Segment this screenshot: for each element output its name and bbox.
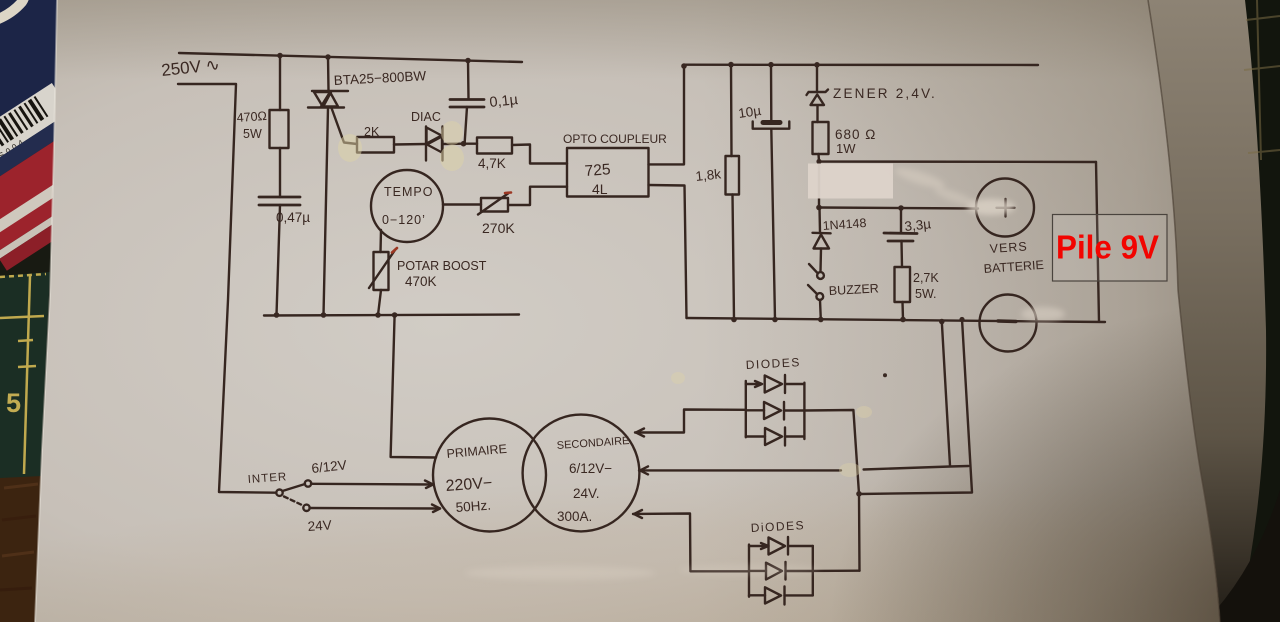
arrow into primaire bottom (432, 505, 440, 513)
wire 10u drop (770, 65, 773, 120)
svg-text:TEMPO: TEMPO (384, 185, 433, 199)
svg-text:680 Ω: 680 Ω (835, 127, 876, 142)
node rail triac (321, 312, 327, 318)
wire zener to 680R (816, 106, 818, 123)
ghost reflection marks bottom center (465, 564, 820, 580)
switch INTER pivot (276, 490, 282, 496)
mat sliver far right (1238, 0, 1280, 622)
svg-text:0,47µ: 0,47µ (276, 210, 310, 225)
capacitor C 0,1u (450, 100, 484, 108)
svg-text:0−120’: 0−120’ (382, 213, 426, 227)
green cutting mat left (0, 272, 50, 478)
wire 4,7k to opto pin1 (512, 145, 567, 164)
wire down through whiteout to plus node (818, 162, 820, 208)
diode bank2 D3 (749, 587, 813, 605)
wire secondaire mid output right part to A (864, 466, 969, 470)
wire 470R drop (279, 56, 281, 111)
node bus corner (681, 63, 687, 69)
switch dashed to contact bottom (284, 497, 303, 506)
svg-text:220V−: 220V− (445, 475, 493, 495)
node bus 1,8k (728, 62, 734, 68)
wire battery box vertical (1096, 162, 1099, 322)
diode bank2 D1 (749, 537, 813, 555)
node 680 corner (816, 159, 821, 164)
wire 10u down to rail (771, 129, 775, 320)
wire 680R to node and right to battery box (819, 154, 1097, 162)
potentiometer R 270k (478, 193, 511, 215)
wire 3,3u drop (900, 208, 902, 233)
wire 2k to diac (394, 143, 426, 146)
wood table bottom-left (0, 476, 42, 622)
diode bank 1 right bar (803, 383, 805, 439)
wire switch top contact to primaire (311, 483, 433, 486)
svg-text:270K: 270K (482, 220, 515, 236)
diode bank1 D2 (746, 402, 805, 420)
capacitor C 0,47u (259, 197, 300, 205)
svg-text:5W.: 5W. (915, 287, 937, 301)
wire opto out top to right bus (649, 65, 685, 165)
mat yellow grid (0, 274, 46, 474)
correction blob near rail gap (839, 463, 861, 477)
node plus line left (816, 205, 822, 211)
wire rail down B to diode output node (859, 319, 972, 494)
svg-text:OPTO COUPLEUR: OPTO COUPLEUR (563, 132, 667, 146)
wire opto out bottom down to right rail (649, 185, 687, 318)
wire 250V return lead (178, 84, 276, 493)
left objects under paper (0, 0, 133, 622)
svg-text:4L: 4L (592, 181, 608, 197)
resistor R 470ohm 5W (270, 110, 289, 148)
wire 0,1u to diac node (465, 107, 467, 144)
svg-text:1W: 1W (836, 141, 856, 156)
diac D1 (426, 127, 443, 161)
wire diode to buzzer (819, 249, 822, 272)
wire tempo to 270k (443, 203, 481, 205)
wire secondaire bottom output to diodes2 (633, 514, 749, 572)
whiteout big patch (808, 164, 893, 199)
node rail potar (375, 312, 381, 318)
node junction 0,1u top (465, 58, 471, 64)
resistor R 4,7k (477, 138, 512, 154)
svg-text:0,1µ: 0,1µ (489, 92, 520, 111)
wire triac cathode down to rail (324, 108, 329, 316)
wire plus node line (819, 208, 978, 209)
svg-text:2K: 2K (364, 125, 380, 139)
node diac / 0,1u / 4,7k junction (461, 141, 467, 147)
barcode bars (0, 97, 48, 161)
wire zener drop (816, 65, 818, 91)
mat grid faint lines top-right (1200, 0, 1280, 240)
transformer secondaire circle (523, 415, 640, 532)
svg-text:ZENER 2,4V.: ZENER 2,4V. (833, 86, 937, 101)
svg-text:10µ: 10µ (737, 103, 762, 121)
svg-text:5: 5 (6, 388, 21, 418)
node bus 10u (768, 62, 774, 68)
node rail 0,47u (274, 312, 280, 318)
svg-text:300A.: 300A. (557, 509, 592, 524)
wire secondaire top output to diodes1 (635, 410, 746, 433)
wire rail down to primaire top input (391, 315, 436, 458)
svg-text:POTAR BOOST: POTAR BOOST (397, 259, 487, 273)
diode bank 1 left bar (745, 381, 747, 437)
wire 2,7k to rail (901, 302, 904, 320)
navy sliver below sticker (0, 106, 87, 190)
wire 1,8k bottom to rail (733, 195, 735, 320)
svg-text:DiODES: DiODES (750, 518, 805, 535)
transformer primaire circle (433, 419, 546, 532)
terminal minus (980, 295, 1037, 352)
wire secondaire mid output left part (639, 469, 841, 471)
svg-text:BUZZER: BUZZER (828, 281, 879, 298)
diode bank1 D3 (746, 428, 805, 446)
node junction 470R top (277, 53, 283, 59)
svg-text:4,7K: 4,7K (478, 156, 506, 171)
diode D 1N4148 (813, 233, 831, 249)
wire diodes1 output down (804, 410, 859, 571)
wire rail down A to secondaire mid line (942, 322, 950, 466)
wire triac drop from bus (327, 57, 330, 90)
wire node to 4,7k (466, 142, 477, 144)
wire tempo to potar boost (379, 230, 382, 252)
diode bank2 D2 (749, 562, 813, 580)
resistor R 680ohm 1W (813, 122, 829, 154)
svg-text:DIAC: DIAC (411, 110, 441, 124)
svg-text:VERS: VERS (989, 239, 1028, 256)
wire 470R to C1 (279, 148, 281, 197)
arrow secondaire top (636, 429, 644, 437)
red band with white stripes (0, 119, 121, 253)
svg-text:24V.: 24V. (573, 486, 600, 501)
node rail buzzer (818, 317, 824, 323)
optocoupler U 725 4L (567, 148, 649, 197)
node plus line 3,3u (898, 205, 904, 211)
wire top right bus (684, 63, 1038, 66)
resistor R 1,8k (726, 156, 740, 195)
arrow secondaire mid (640, 466, 648, 474)
svg-text:6/12V−: 6/12V− (569, 461, 612, 476)
svg-text:5W: 5W (243, 127, 262, 141)
diode bank1 D1 (746, 375, 805, 393)
wire diac to node (443, 142, 464, 145)
svg-text:50Hz.: 50Hz. (455, 498, 491, 515)
diode bank 2 left bar (748, 545, 750, 597)
wire left bottom rail (264, 315, 519, 316)
wire switch bottom contact to primaire (310, 507, 441, 510)
svg-text:3,3µ: 3,3µ (904, 216, 932, 234)
ink dot stray (883, 373, 887, 377)
potentiometer R POTAR BOOST 470k (369, 248, 397, 290)
node rail 1,8k (731, 317, 737, 323)
wire 1,8k top (730, 65, 733, 156)
wire top mains bus left (179, 53, 522, 62)
node diodes output / B junction (856, 491, 862, 497)
diode zener 2,4V (807, 90, 829, 106)
wire C1 to bottom rail (277, 205, 281, 315)
node rail down A (939, 319, 945, 325)
wire potar to bottom rail (378, 290, 381, 315)
switch contact top (305, 480, 311, 486)
svg-text:470K: 470K (405, 274, 437, 289)
wire 0,1u drop from bus (467, 61, 470, 99)
resistor R 2,7k 5W (895, 267, 911, 302)
switch lever (283, 484, 306, 491)
navy blue box (0, 0, 62, 138)
triac Q BTA25-800BW (308, 91, 348, 108)
svg-text:Pile 9V: Pile 9V (1056, 230, 1160, 267)
node rail 2,7k (900, 317, 906, 323)
svg-text:725: 725 (584, 161, 611, 180)
svg-text:24V: 24V (307, 517, 332, 534)
node rail 10u (772, 317, 778, 323)
wire buzzer to rail (819, 300, 822, 320)
potentiometer TEMPO 0-120 (371, 170, 443, 242)
arrow into primaire mid (425, 481, 433, 489)
battery overlay box Pile 9V (1053, 215, 1168, 282)
wire 270k to opto pin2 (508, 187, 567, 205)
node junction triac top (325, 54, 331, 60)
capacitor C 10u electrolytic (753, 122, 790, 129)
buzzer BZ (808, 264, 824, 300)
wire diodes2 mid output to vertical (813, 570, 860, 573)
svg-text:1,8k: 1,8k (695, 166, 722, 184)
wire 3,3u to 2,7k (900, 241, 903, 267)
wire to 1N4148 (818, 208, 821, 233)
wire triac gate diagonal (332, 108, 358, 144)
correction blobs near diac (338, 134, 362, 162)
node bus zener (814, 62, 820, 68)
svg-text:DIODES: DIODES (745, 355, 801, 372)
second paper sheet / shadowed edge on right (1148, 0, 1267, 622)
terminal plus vers batterie (976, 179, 1034, 237)
capacitor C 3,3u (884, 233, 917, 241)
barcode sticker white band (0, 77, 133, 270)
wire right bottom rail minus bus (687, 318, 1106, 322)
whiteout patches (338, 121, 1065, 477)
node B top (959, 317, 964, 322)
switch contact bottom (303, 505, 309, 511)
resistor R 2k (357, 137, 394, 153)
svg-text:470Ω: 470Ω (236, 109, 267, 125)
arrow secondaire bottom (634, 510, 642, 518)
svg-text:2,7K: 2,7K (913, 271, 939, 285)
white charging cable (0, 0, 25, 22)
diode bank 2 right bar (812, 546, 814, 595)
node rail to transfo (392, 312, 398, 318)
whiteout streaks right of patch (893, 164, 977, 209)
